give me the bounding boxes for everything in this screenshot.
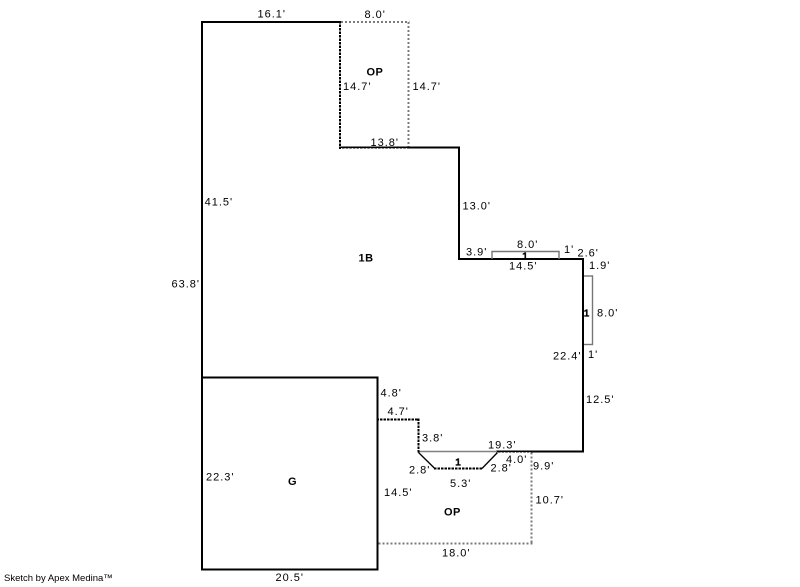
svg-text:8.0': 8.0': [517, 239, 538, 251]
wire step wall 3.8ft vertical: [418, 419, 420, 453]
svg-text:3.9': 3.9': [466, 247, 487, 259]
svg-text:19.3': 19.3': [488, 440, 517, 452]
svg-text:Sketch by Apex Medina™: Sketch by Apex Medina™: [4, 573, 113, 584]
svg-text:G: G: [288, 476, 297, 488]
wire garage right wall 22.3ft: [377, 377, 379, 571]
svg-text:41.5': 41.5': [205, 197, 234, 209]
svg-text:63.8': 63.8': [171, 279, 200, 291]
wire shared wall 1B/OP gap texture: [497, 451, 531, 453]
svg-text:10.7': 10.7': [536, 495, 565, 507]
wire OP dotted right edge 10.7ft: [531, 453, 533, 545]
wire OP top dashed edge 8.0ft: [341, 21, 410, 23]
wire right exterior wall 22.4ft: [582, 258, 584, 452]
svg-text:14.7': 14.7': [343, 81, 372, 93]
svg-text:3.8': 3.8': [422, 433, 443, 445]
svg-text:22.4': 22.4': [553, 351, 582, 363]
bay window trapezoid bottom 5.3ft: [434, 468, 483, 470]
svg-text:14.5': 14.5': [384, 487, 413, 499]
wire garage bottom wall 20.5ft: [201, 569, 379, 571]
svg-text:14.7': 14.7': [413, 81, 442, 93]
wire OP right dashed edge 14.7ft: [408, 22, 410, 147]
bay window trapezoid left slope 2.8ft: [419, 453, 435, 469]
svg-text:1: 1: [455, 458, 461, 469]
wire bay opening line gray: [419, 451, 498, 453]
window right side rectangle 8.0ft: [584, 275, 593, 345]
wire garage top wall 20.5ft: [201, 377, 379, 379]
svg-text:1.9': 1.9': [589, 260, 610, 272]
wire step wall 4.7ft horizontal: [377, 419, 420, 421]
svg-text:8.0': 8.0': [365, 9, 386, 21]
bay window trapezoid right slope 2.8ft: [482, 453, 498, 469]
window bay top rectangle: [491, 252, 559, 260]
wire bottom wall 9.9ft segment: [496, 451, 584, 453]
wire OP dotted bottom edge 18.0ft: [379, 543, 533, 545]
svg-text:1B: 1B: [359, 253, 374, 265]
svg-text:20.5': 20.5': [276, 572, 305, 584]
svg-text:13.8': 13.8': [371, 137, 400, 149]
svg-text:14.5': 14.5': [509, 261, 538, 273]
svg-text:5.3': 5.3': [450, 478, 471, 490]
svg-text:1: 1: [584, 309, 590, 320]
svg-text:16.1': 16.1': [258, 9, 287, 21]
svg-text:13.0': 13.0': [463, 201, 492, 213]
svg-text:9.9': 9.9': [533, 461, 554, 473]
svg-text:1': 1': [564, 244, 574, 256]
svg-text:4.8': 4.8': [381, 388, 402, 400]
wire wall 13.0ft vertical: [458, 147, 460, 260]
svg-text:22.3': 22.3': [206, 472, 235, 484]
svg-text:2.8': 2.8': [409, 465, 430, 477]
svg-text:18.0': 18.0': [442, 548, 471, 560]
svg-text:4.7': 4.7': [388, 406, 409, 418]
svg-text:8.0': 8.0': [597, 308, 618, 320]
wire OP bottom shared edge gap texture: [341, 147, 408, 149]
svg-text:OP: OP: [444, 507, 461, 519]
svg-text:12.5': 12.5': [586, 394, 615, 406]
wire top exterior wall 16.1ft: [201, 21, 341, 23]
wire left exterior wall 63.8ft: [201, 21, 203, 571]
wire wall 13.8ft horizontal: [339, 147, 460, 149]
svg-text:2.6': 2.6': [578, 248, 599, 260]
svg-text:1': 1': [588, 349, 598, 361]
wire shared wall 1B/OP vertical 14.7ft dashed: [339, 21, 341, 149]
wire wall 14.5ft horizontal: [458, 258, 584, 260]
svg-text:2.8': 2.8': [491, 463, 512, 475]
svg-text:OP: OP: [367, 67, 384, 79]
